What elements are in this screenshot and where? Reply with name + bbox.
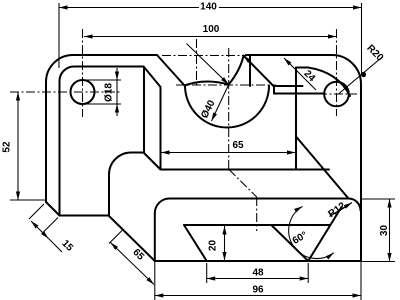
hole horizontal centerline (10, 91, 122, 93)
left outer edge (45, 82, 47, 202)
slot edge y93.5 (274, 93, 325, 95)
notch middle 45 receding (271, 225, 308, 261)
dim 48 ext right (307, 263, 309, 283)
dim 52 ext bottom (10, 199, 46, 201)
O40 leader lower radius arrow (212, 85, 229, 122)
dim 60 arc (289, 206, 334, 258)
svg-text:100: 100 (203, 24, 220, 35)
dim 48 line (207, 278, 309, 280)
step edge 45 (144, 153, 161, 170)
dim 140 ext right (361, 3, 363, 73)
notch centerline bottom (256, 197, 258, 231)
dim 15 ext 1 (29, 204, 44, 219)
column right edge (143, 67, 145, 153)
block back corner arc (109, 153, 131, 175)
dim 65 horizontal line (161, 152, 296, 154)
hole O18 (71, 80, 95, 104)
bottom-left bevel 45 (46, 202, 60, 216)
dim 15 ext 2 (43, 218, 58, 233)
rib 45 chamfer (296, 137, 349, 199)
svg-text:Ø18: Ø18 (104, 83, 115, 102)
boss circle R20 (324, 82, 349, 107)
dim 96 line (155, 295, 361, 297)
dim 24 arrow on line A (244, 56, 255, 67)
top gap centerline (162, 55, 246, 57)
svg-text:60°: 60° (291, 230, 310, 247)
label 140 (199, 0, 219, 13)
slot edge y86 (274, 85, 303, 87)
rect left edge (160, 87, 162, 170)
slab 45 receding edge to block (109, 216, 155, 262)
slot top vertical x250 (249, 56, 251, 86)
block back top edge (131, 152, 144, 154)
rect slab top-left receding edge (144, 67, 161, 87)
dim O18 ext bottom (86, 103, 121, 105)
dim 140 ext left (58, 3, 60, 68)
svg-text:24: 24 (301, 68, 317, 84)
block front top edge (170, 198, 349, 200)
rect bottom edge (161, 169, 330, 171)
R20 leader (339, 56, 383, 93)
slot short vertical (273, 86, 275, 94)
notch centerline 45 jog (229, 170, 257, 198)
notch top-face ellipse right (229, 56, 244, 85)
dim 52 line (17, 92, 19, 200)
dim 65 slant line (111, 243, 155, 285)
dim 24 second line (284, 58, 316, 90)
dim 30 ext bottom (362, 261, 395, 263)
R12 corner arc (349, 199, 361, 211)
svg-text:140: 140 (200, 2, 217, 13)
inner left edge (59, 81, 61, 216)
back R20 corner arc (332, 55, 361, 84)
big arc O40 (185, 86, 269, 128)
dim 96 ext left (154, 262, 156, 300)
boss horizontal centerline (318, 93, 357, 95)
boss vertical centerline (336, 29, 338, 116)
svg-text:65: 65 (232, 140, 244, 151)
dim 48 ext left (206, 263, 208, 283)
right edge (360, 84, 362, 261)
notch top edge (184, 224, 330, 226)
dim 96 ext right (360, 262, 362, 300)
outer top edge left segment (73, 54, 157, 56)
silhouette 45 to arc (157, 55, 185, 86)
aux vertical centerline x194 (196, 39, 198, 85)
svg-text:52: 52 (2, 141, 13, 153)
dim O18 ext top (86, 79, 121, 81)
notch right slant 60 extended (308, 207, 341, 261)
dim 15 tail (49, 239, 63, 253)
outer top edge right segment (246, 54, 332, 56)
rect right edge (295, 68, 297, 170)
dim 140 line (59, 7, 362, 9)
dim 65 slant ext tick (109, 230, 122, 243)
dim 100 line (84, 36, 337, 38)
svg-text:R12: R12 (326, 200, 348, 220)
dim 15 line (31, 221, 49, 239)
dim 30 ext top (362, 198, 395, 200)
O40 horizontal centerline (176, 84, 276, 86)
notch top-face ellipse left (185, 81, 229, 85)
block bottom edge (155, 260, 361, 262)
block front top-left corner arc (155, 199, 170, 214)
svg-text:20: 20 (208, 240, 219, 252)
notch vertical centerline top (228, 48, 230, 170)
O40 leader upper (187, 44, 229, 85)
inner corner arc (60, 67, 75, 82)
hole vertical centerline (82, 29, 84, 117)
svg-text:30: 30 (379, 225, 390, 237)
front top edge right (296, 67, 308, 69)
svg-text:Ø40: Ø40 (199, 98, 218, 120)
dim 30 line (389, 199, 391, 262)
dim O18 line (116, 68, 118, 80)
dim 20 line (224, 226, 226, 261)
svg-text:96: 96 (252, 285, 264, 296)
block back left edge (108, 175, 110, 216)
svg-text:48: 48 (252, 268, 264, 279)
R20 leader dot (361, 72, 366, 77)
centerlines dash-dot (10, 29, 357, 231)
top-left corner arc (46, 55, 73, 82)
block front left edge (154, 213, 156, 261)
R12 leader (330, 203, 353, 217)
inner top edge (74, 66, 144, 68)
front R20 corner arc partial (308, 68, 350, 97)
column bottom edge (60, 215, 109, 217)
slot 45 line A (244, 56, 275, 87)
svg-text:R20: R20 (364, 43, 385, 64)
notch left slant 60 (184, 225, 207, 261)
